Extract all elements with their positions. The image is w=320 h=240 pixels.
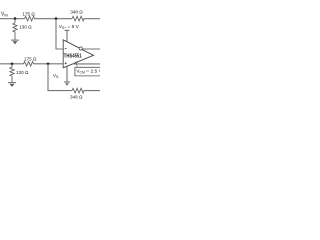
node junction top-left (14, 17, 17, 20)
VOCM leader arrow (75, 63, 78, 67)
svg-text:130 Ω: 130 Ω (19, 25, 32, 30)
wire output top (82, 48, 100, 50)
pin plus input mark (65, 62, 67, 64)
node feedback junction bottom (47, 63, 50, 66)
ground VS- (64, 81, 70, 83)
pin minus input mark (65, 48, 67, 50)
resistor 175ohm top (25, 16, 35, 21)
wire bottom input rail (0, 63, 63, 65)
resistor 130ohm top (13, 23, 17, 32)
ground bottom-left (8, 82, 16, 84)
svg-text:175 Ω: 175 Ω (24, 56, 37, 61)
wire 130 stem bottom (11, 64, 13, 83)
svg-text:VCM = 2.5 V: VCM = 2.5 V (76, 68, 100, 74)
supply VS+ pin (65, 30, 70, 42)
supply VS- pin (66, 67, 68, 82)
wire bottom feedback (48, 64, 100, 91)
VCM annotation box (75, 67, 103, 76)
wire top input rail (0, 18, 100, 20)
svg-text:VS-: VS- (53, 73, 59, 79)
wire inverting input (56, 19, 63, 49)
svg-text:VIN: VIN (1, 11, 8, 17)
resistor 348ohm bottom feedback (72, 88, 84, 93)
wire output bottom (72, 63, 100, 65)
svg-text:348 Ω: 348 Ω (70, 94, 83, 99)
resistor 348ohm top feedback (72, 16, 84, 21)
op-amp U1 THS4551 triangle (63, 40, 93, 68)
svg-text:348 Ω: 348 Ω (70, 10, 83, 15)
output bubble inverting (79, 47, 82, 50)
wire 130 stem top (14, 19, 16, 40)
svg-text:THS4551: THS4551 (64, 53, 82, 59)
resistor 175ohm bottom (24, 62, 34, 67)
ground top-left (11, 39, 19, 41)
svg-text:130 Ω: 130 Ω (16, 70, 29, 75)
svg-text:VS+ = 5 V: VS+ = 5 V (59, 24, 80, 30)
resistor 130ohm bottom (10, 67, 14, 76)
node feedback junction top (55, 17, 58, 20)
node junction bottom-left (11, 63, 14, 66)
svg-text:175 Ω: 175 Ω (22, 11, 35, 16)
